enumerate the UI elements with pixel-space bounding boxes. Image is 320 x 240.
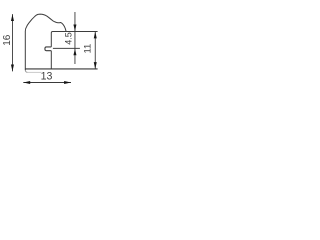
svg-text:16: 16	[2, 34, 13, 46]
bottom-left rounded corner of profile	[25, 70, 27, 72]
groove in inner wall	[45, 47, 51, 51]
svg-text:4.5: 4.5	[64, 32, 74, 45]
frame profile: left edge + ogee top curve	[25, 14, 66, 70]
rabbet ledge line with corner into inner wall (extends right as extension for dim 11)	[51, 31, 97, 46]
inner wall lower part	[50, 51, 52, 69]
extension line for dim 4.5 lower bound	[53, 47, 80, 49]
dimension 4.5: vertical line with outside arrows	[74, 12, 76, 64]
bottom line of profile (extends right as extension for dim 11)	[25, 68, 97, 70]
dimension 11: vertical line at right	[94, 32, 96, 70]
dimension 16: vertical line at left	[11, 14, 13, 71]
svg-text:13: 13	[41, 70, 53, 82]
dimension 13: horizontal line at bottom	[23, 82, 71, 84]
svg-text:11: 11	[82, 44, 93, 54]
thin light bottom contour line	[27, 71, 41, 73]
